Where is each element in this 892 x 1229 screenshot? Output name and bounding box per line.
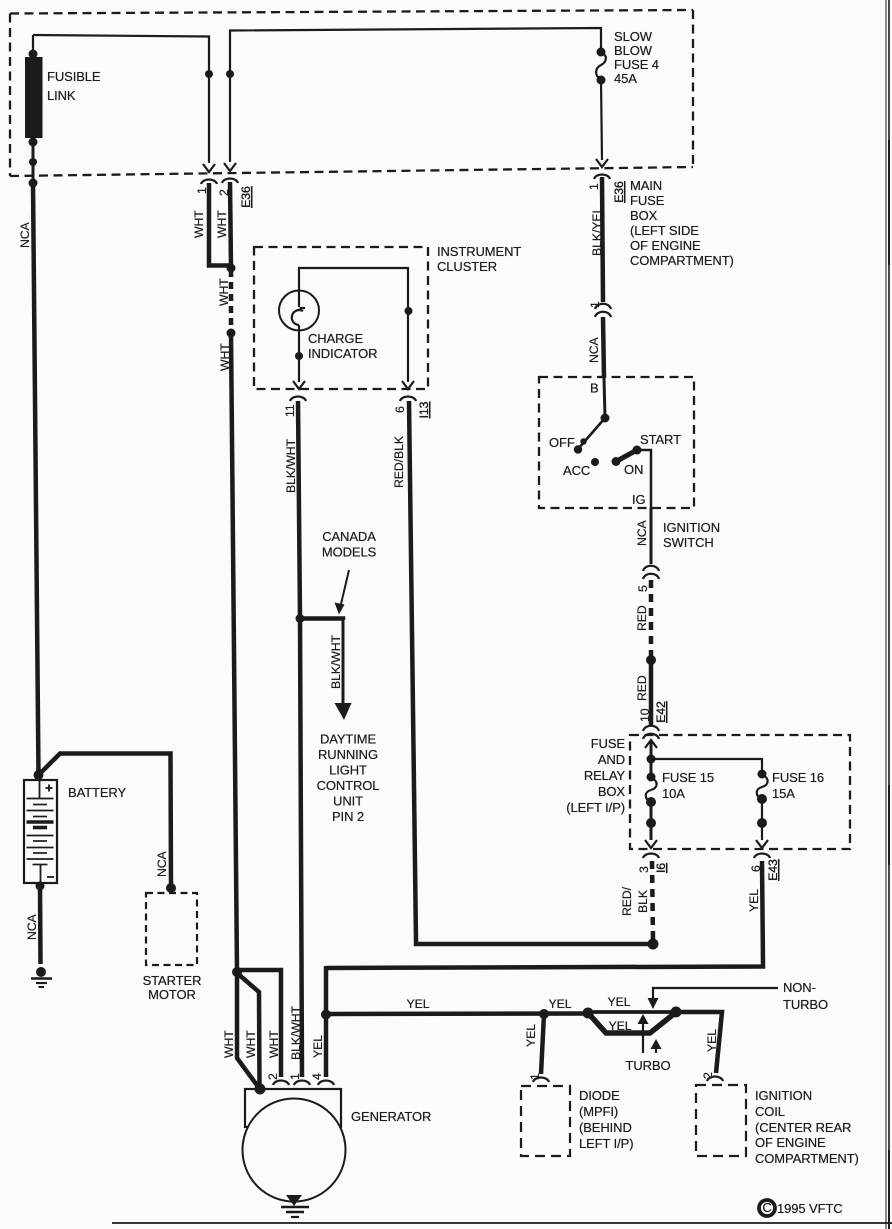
svg-text:5: 5 bbox=[636, 585, 650, 592]
dashed RED/BLK wire bbox=[652, 861, 653, 940]
svg-text:BLK/WHT: BLK/WHT bbox=[289, 1005, 303, 1060]
svg-text:YEL: YEL bbox=[747, 889, 761, 912]
svg-text:10A: 10A bbox=[662, 786, 685, 801]
svg-text:YEL: YEL bbox=[609, 1019, 632, 1033]
inline connector 1 on BLK/YEL wire bbox=[588, 301, 611, 317]
wire WHT diagonal to generator case bbox=[237, 973, 260, 1087]
fusible link label bbox=[47, 69, 101, 103]
bridge left dot bbox=[583, 1008, 594, 1019]
bridge right dot bbox=[671, 1007, 682, 1018]
fuse 15 label bbox=[662, 770, 714, 801]
internal rail to fuse 16 bbox=[651, 759, 762, 775]
fuse 16 label bbox=[772, 770, 824, 801]
main fuse box (engine compartment) dashed border bbox=[10, 10, 693, 176]
svg-text:OF ENGINE: OF ENGINE bbox=[630, 238, 701, 253]
svg-text:COMPARTMENT): COMPARTMENT) bbox=[755, 1151, 859, 1166]
starter motor label bbox=[143, 973, 202, 1002]
svg-text:YEL: YEL bbox=[407, 997, 430, 1011]
diode label bbox=[579, 1088, 633, 1151]
svg-text:FUSIBLE: FUSIBLE bbox=[47, 69, 101, 84]
svg-text:INDICATOR: INDICATOR bbox=[308, 346, 377, 361]
svg-text:4: 4 bbox=[310, 1073, 324, 1080]
svg-text:1: 1 bbox=[288, 1073, 302, 1080]
turbo callout arrow 1 bbox=[638, 1014, 649, 1053]
svg-text:UNIT: UNIT bbox=[333, 794, 363, 809]
svg-text:CHARGE: CHARGE bbox=[308, 331, 363, 346]
svg-text:FUSE 15: FUSE 15 bbox=[662, 770, 714, 785]
svg-text:YEL: YEL bbox=[311, 1035, 325, 1058]
fuse and relay box label bbox=[566, 736, 625, 815]
svg-text:SWITCH: SWITCH bbox=[663, 535, 714, 550]
ignition coil label bbox=[755, 1088, 859, 1166]
svg-text:LEFT I/P): LEFT I/P) bbox=[579, 1136, 633, 1151]
wire: top rail 2 to slow blow fuse bbox=[230, 28, 601, 162]
svg-text:15A: 15A bbox=[772, 786, 795, 801]
canada models label bbox=[322, 529, 377, 560]
svg-text:COMPARTMENT): COMPARTMENT) bbox=[630, 253, 734, 268]
wire to starter motor bbox=[39, 754, 172, 889]
svg-text:B: B bbox=[590, 381, 599, 396]
slow blow fuse label bbox=[614, 29, 659, 86]
svg-text:NON-: NON- bbox=[783, 980, 816, 995]
arrowhead up into fuse and relay box bbox=[645, 740, 657, 748]
junction dot on wire 2 bbox=[226, 70, 234, 78]
charge indicator label bbox=[308, 331, 377, 361]
copyright 1995 VFTC bbox=[759, 1200, 843, 1216]
connector arc generator pin 1 bbox=[294, 1081, 310, 1086]
svg-text:I6: I6 bbox=[654, 863, 668, 873]
svg-text:NCA: NCA bbox=[25, 913, 39, 940]
svg-text:C: C bbox=[762, 1200, 771, 1215]
daytime running light control unit label bbox=[317, 732, 380, 825]
ground (generator) bbox=[281, 1195, 309, 1217]
svg-text:OFF: OFF bbox=[549, 435, 575, 450]
wire IG inside switch bbox=[637, 450, 651, 509]
svg-text:WHT: WHT bbox=[267, 1030, 281, 1058]
svg-text:DAYTIME: DAYTIME bbox=[320, 732, 377, 747]
svg-text:MODELS: MODELS bbox=[322, 545, 377, 560]
generator case bbox=[243, 1089, 346, 1202]
contact ACC bbox=[591, 458, 599, 466]
wire B into switch bbox=[604, 378, 605, 417]
svg-text:BLK/WHT: BLK/WHT bbox=[284, 438, 298, 493]
turbo callout arrow 2 bbox=[651, 1039, 662, 1053]
arrowhead into main fuse box pin 2 bbox=[224, 163, 236, 171]
starter motor dashed box bbox=[146, 893, 197, 965]
svg-text:IGNITION: IGNITION bbox=[663, 520, 720, 535]
wire BLK/YEL bbox=[602, 177, 603, 302]
arrowhead down to pin 3 bbox=[645, 840, 657, 848]
svg-text:1: 1 bbox=[588, 301, 602, 308]
svg-text:E36: E36 bbox=[612, 181, 626, 203]
non-turbo callout arrowhead bbox=[648, 998, 659, 1009]
svg-text:RELAY: RELAY bbox=[584, 768, 626, 783]
connector arc diode pin 1 bbox=[533, 1078, 549, 1083]
arrowhead into main fuse box (right pin 1) bbox=[596, 159, 608, 167]
svg-text:NCA: NCA bbox=[155, 850, 169, 877]
svg-text:YEL: YEL bbox=[549, 997, 572, 1011]
svg-text:WHT: WHT bbox=[244, 1030, 258, 1058]
svg-text:LINK: LINK bbox=[47, 88, 76, 103]
junction dot WHT at generator branch bbox=[232, 967, 242, 977]
svg-text:(LEFT SIDE: (LEFT SIDE bbox=[630, 223, 699, 238]
wire YEL from fuse 16 down and across bbox=[326, 861, 763, 968]
connector arc below pin 1 bbox=[201, 180, 217, 185]
svg-text:(CENTER REAR: (CENTER REAR bbox=[755, 1120, 851, 1135]
battery bbox=[24, 780, 57, 883]
svg-text:WHT: WHT bbox=[217, 278, 231, 306]
dot on cluster right wire bbox=[405, 307, 413, 315]
svg-text:I13: I13 bbox=[417, 401, 431, 418]
svg-text:ACC: ACC bbox=[563, 463, 590, 478]
svg-text:E36: E36 bbox=[239, 186, 253, 208]
svg-text:BOX: BOX bbox=[630, 208, 658, 223]
junction of WHT wires bbox=[227, 264, 236, 273]
svg-text:RUNNING: RUNNING bbox=[318, 747, 378, 762]
arrowhead cluster pin 6 bbox=[402, 381, 414, 389]
svg-text:3: 3 bbox=[637, 866, 651, 873]
svg-text:(MPFI): (MPFI) bbox=[579, 1104, 618, 1119]
ignition coil dashed box bbox=[696, 1085, 746, 1156]
svg-text:1995 VFTC: 1995 VFTC bbox=[777, 1201, 843, 1216]
slow blow fuse 4 45A bbox=[596, 48, 606, 161]
svg-text:GENERATOR: GENERATOR bbox=[351, 1109, 431, 1124]
wire branch to DRL control unit bbox=[301, 619, 343, 621]
arrowhead down to pin 6 bbox=[756, 840, 768, 848]
charge indicator lamp bbox=[279, 291, 319, 383]
svg-text:TURBO: TURBO bbox=[783, 997, 828, 1012]
svg-text:SLOW: SLOW bbox=[614, 29, 653, 44]
cluster internal rail bbox=[299, 268, 408, 382]
long WHT wire down to generator junction bbox=[231, 333, 237, 971]
svg-text:FUSE 4: FUSE 4 bbox=[614, 57, 659, 72]
svg-text:WHT: WHT bbox=[222, 1030, 236, 1058]
starter motor terminal dot bbox=[166, 883, 176, 893]
wire NCA from fusible link to battery bbox=[33, 183, 39, 776]
svg-text:COIL: COIL bbox=[755, 1104, 785, 1119]
svg-text:OF ENGINE: OF ENGINE bbox=[755, 1135, 826, 1150]
svg-text:LIGHT: LIGHT bbox=[329, 763, 367, 778]
svg-text:BOX: BOX bbox=[598, 784, 626, 799]
ignition switch dashed box bbox=[539, 377, 694, 508]
svg-text:NCA: NCA bbox=[18, 221, 32, 248]
arrowhead into main fuse box pin 1 bbox=[203, 164, 215, 172]
connector arc generator pin 4 bbox=[318, 1081, 334, 1086]
non-turbo callout line bbox=[653, 988, 778, 1000]
svg-text:2: 2 bbox=[701, 1072, 715, 1079]
connector arc below pin 3 bbox=[643, 854, 659, 859]
svg-text:DIODE: DIODE bbox=[579, 1088, 620, 1103]
junction dot on wire 1 bbox=[205, 70, 213, 78]
svg-text:10: 10 bbox=[638, 708, 652, 722]
inline connector at fuse and relay box bbox=[643, 726, 659, 739]
svg-text:FUSE: FUSE bbox=[630, 193, 665, 208]
svg-text:BLK/YEL: BLK/YEL bbox=[590, 207, 604, 256]
junction dot canada branch bbox=[296, 614, 305, 623]
svg-text:INSTRUMENT: INSTRUMENT bbox=[437, 244, 521, 259]
svg-text:RED: RED bbox=[635, 675, 649, 701]
svg-text:(BEHIND: (BEHIND bbox=[579, 1120, 632, 1135]
svg-text:RED/BLK: RED/BLK bbox=[392, 435, 406, 488]
junction dot at battery positive bbox=[34, 770, 44, 780]
junction dot below dashed WHT bbox=[227, 329, 236, 338]
ground (battery) bbox=[31, 967, 52, 987]
connector arc generator pin 2 bbox=[273, 1081, 289, 1086]
wire WHT to generator pin 2 bbox=[237, 970, 281, 1077]
svg-text:E42: E42 bbox=[654, 701, 668, 723]
connector arc ignition coil pin 2 bbox=[707, 1077, 723, 1082]
svg-text:TURBO: TURBO bbox=[625, 1058, 670, 1073]
svg-text:YEL: YEL bbox=[524, 1024, 538, 1047]
svg-text:E43: E43 bbox=[766, 859, 780, 881]
fuse 16 15A bbox=[757, 770, 768, 829]
connector arc below pin 11 bbox=[290, 397, 306, 402]
svg-text:BLK/WHT: BLK/WHT bbox=[329, 634, 343, 689]
generator case junction dot bbox=[255, 1084, 266, 1095]
label NON-TURBO bbox=[783, 980, 828, 1012]
internal rail junction dot bbox=[647, 755, 656, 764]
svg-text:MOTOR: MOTOR bbox=[148, 987, 196, 1002]
fuse 15 10A bbox=[646, 773, 657, 829]
connector arc below pin 6 bbox=[400, 397, 416, 402]
svg-text:2: 2 bbox=[266, 1073, 280, 1080]
instrument cluster label bbox=[437, 244, 521, 274]
ignition switch label bbox=[663, 520, 720, 550]
wire WHT from pin 2 bbox=[230, 182, 231, 268]
turbo path (lower) bbox=[589, 1013, 675, 1033]
diode tap dot bbox=[539, 1009, 549, 1019]
wire WHT from pin 1 bbox=[209, 183, 230, 266]
wire YEL down to generator pin 4 bbox=[324, 966, 329, 1077]
svg-text:ON: ON bbox=[624, 462, 643, 477]
YEL bus to diode tap bbox=[326, 1011, 588, 1016]
svg-text:MAIN: MAIN bbox=[630, 178, 662, 193]
svg-text:WHT: WHT bbox=[215, 210, 229, 238]
switch moving contact (to OFF) bbox=[574, 418, 605, 454]
diode dashed box bbox=[521, 1086, 570, 1156]
label RED/ BLK bbox=[620, 886, 650, 916]
main fuse box name label bbox=[630, 178, 734, 268]
wire inside fuse and relay box (left) bbox=[650, 742, 653, 778]
svg-text:BLK: BLK bbox=[636, 889, 650, 913]
svg-text:NCA: NCA bbox=[635, 519, 649, 546]
contact bridge ON-START bbox=[612, 446, 642, 467]
non-turbo path (upper) bbox=[588, 1010, 676, 1014]
svg-text:NCA: NCA bbox=[587, 336, 601, 363]
svg-text:(LEFT I/P): (LEFT I/P) bbox=[566, 800, 625, 815]
junction dot RED/BLK bbox=[648, 939, 659, 950]
svg-text:WHT: WHT bbox=[192, 210, 206, 238]
wire NCA battery to ground bbox=[38, 886, 43, 964]
wire: top rail to pin 1 bbox=[33, 35, 209, 163]
svg-text:CONTROL: CONTROL bbox=[317, 778, 380, 793]
arrowhead cluster pin 11 bbox=[293, 381, 305, 389]
solid RED wire bbox=[649, 660, 654, 725]
arrowhead to daytime running light control unit bbox=[335, 703, 352, 720]
svg-text:YEL: YEL bbox=[608, 995, 631, 1009]
connector arc below pin 2 bbox=[222, 179, 238, 184]
dot on lamp wire bbox=[295, 352, 303, 360]
connector arc below right pin 1 bbox=[594, 175, 610, 180]
fuse and relay box dashed border bbox=[630, 735, 850, 849]
svg-text:START: START bbox=[640, 432, 681, 447]
svg-text:1: 1 bbox=[587, 183, 601, 190]
svg-text:PIN 2: PIN 2 bbox=[332, 809, 364, 824]
switch common dot bbox=[601, 414, 610, 423]
inline connector 5 bbox=[636, 566, 659, 592]
dashed RED wire bbox=[649, 580, 654, 656]
svg-text:RED/: RED/ bbox=[620, 886, 634, 916]
instrument cluster dashed box bbox=[254, 247, 428, 389]
svg-text:45A: 45A bbox=[614, 71, 637, 86]
wire RED/BLK from pin 6 bbox=[409, 401, 653, 944]
dashed WHT segment bbox=[229, 270, 234, 331]
svg-text:BATTERY: BATTERY bbox=[68, 785, 126, 800]
junction dot YEL bus bbox=[321, 1010, 331, 1020]
svg-text:STARTER: STARTER bbox=[143, 973, 202, 988]
junction dot on RED wire bbox=[646, 655, 656, 665]
svg-text:BLOW: BLOW bbox=[614, 43, 653, 58]
wire YEL to ignition coil bbox=[676, 1012, 722, 1073]
svg-text:11: 11 bbox=[283, 404, 297, 417]
svg-text:IG: IG bbox=[632, 492, 646, 507]
connector arc below pin 6 bbox=[754, 854, 770, 859]
canada models pointer arrow bbox=[335, 570, 350, 615]
svg-text:WHT: WHT bbox=[218, 343, 232, 371]
svg-text:FUSE 16: FUSE 16 bbox=[772, 770, 824, 785]
wire BLK/WHT from pin 11 to generator bbox=[298, 401, 302, 1077]
wire WHT left run to generator case bbox=[237, 972, 259, 1088]
svg-text:IGNITION: IGNITION bbox=[755, 1088, 812, 1103]
svg-text:CANADA: CANADA bbox=[322, 529, 376, 544]
wire YEL to diode bbox=[541, 1014, 544, 1074]
svg-text:AND: AND bbox=[598, 752, 625, 767]
wire NCA to ignition switch bbox=[603, 317, 604, 378]
battery negative dot bbox=[36, 882, 45, 891]
svg-text:CLUSTER: CLUSTER bbox=[437, 259, 497, 274]
svg-text:6: 6 bbox=[393, 406, 407, 413]
svg-text:RED: RED bbox=[635, 605, 649, 631]
svg-text:YEL: YEL bbox=[705, 1029, 719, 1052]
svg-text:1: 1 bbox=[528, 1073, 542, 1080]
svg-text:FUSE: FUSE bbox=[591, 736, 626, 751]
wire NCA below ignition switch bbox=[650, 508, 653, 564]
fusible link bbox=[25, 35, 43, 188]
